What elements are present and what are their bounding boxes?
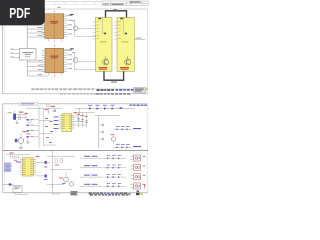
- svg-text:PDF: PDF: [9, 4, 30, 21]
